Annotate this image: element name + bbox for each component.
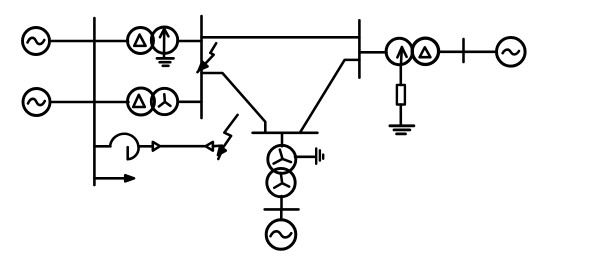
wire T1 to bus B2 — [178, 40, 202, 43]
ground under resistor — [390, 126, 414, 134]
lower busbar — [265, 208, 299, 211]
line trap half-disc — [128, 147, 139, 159]
wire bus B3 to transformer T3 — [359, 51, 386, 54]
wire T4 to lower busbar — [280, 196, 283, 209]
side ground — [316, 148, 323, 163]
generator G4 — [266, 220, 296, 250]
wire T2 to bus B2 — [178, 101, 202, 104]
channel wire middle — [160, 145, 205, 148]
transformer T1 primary winding delta — [128, 28, 154, 54]
transformer T4 lower winding wye — [267, 168, 295, 196]
transformer T2 secondary winding wye — [151, 88, 177, 114]
line trap arc — [110, 134, 138, 147]
generator G3 — [497, 38, 526, 67]
grounding resistor — [397, 85, 405, 105]
channel arrow left-pointing — [206, 142, 213, 151]
channel wire trap to arrow — [139, 145, 153, 148]
channel wire to fault — [213, 144, 222, 147]
wire lower busbar to generator G4 — [280, 209, 283, 220]
transformer T4 upper winding wye — [268, 145, 296, 173]
wire G1 to transformer T1 — [50, 40, 129, 43]
transformer T3 secondary winding delta — [412, 38, 438, 64]
generator G2 — [23, 89, 50, 116]
bus B2 middle busbar — [200, 16, 203, 118]
breaker tick — [462, 39, 465, 62]
fault bolt on channel — [218, 115, 238, 159]
substation middle busbar — [253, 132, 318, 135]
transformer T1 secondary winding grounded-wye arrow — [151, 27, 177, 57]
ground under T1 — [157, 58, 174, 65]
transformer T2 primary winding delta — [128, 88, 155, 115]
wire resistor to ground — [400, 105, 403, 126]
generator G1 — [23, 28, 50, 55]
fault bolt on bus B2 — [197, 43, 216, 72]
wire substation bus to transformer T4 — [281, 133, 284, 146]
transformer T3 primary winding grounded-wye arrow — [386, 38, 412, 65]
transmission line top — [202, 36, 360, 39]
channel wire from bus B1 — [94, 145, 110, 148]
wire bus B2 to substation bus (left line) — [202, 73, 266, 133]
load arrow on bus B1 — [94, 175, 134, 181]
wire T3 to generator G3 — [439, 51, 497, 54]
bus B3 right busbar — [358, 20, 361, 77]
wire substation bus to bus B3 (right line) — [300, 60, 359, 133]
bus B1 left busbar — [93, 18, 96, 185]
neutral wire T3 to resistor — [400, 65, 403, 85]
wire G2 to transformer T2 — [50, 101, 129, 104]
channel arrow right-pointing — [153, 142, 160, 151]
neutral wire T4 to side ground — [295, 156, 315, 159]
